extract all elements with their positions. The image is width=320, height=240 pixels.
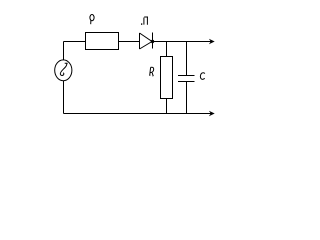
wire box to diode: [119, 41, 140, 43]
label C (capacitor designator): [200, 73, 204, 80]
capacitor C top plate: [178, 75, 195, 77]
wire R branch top: [166, 42, 168, 57]
resistor box (series, value rho): [86, 33, 119, 50]
node junction dot at diode cathode: [151, 40, 154, 43]
wire bottom rail: [64, 113, 212, 115]
diode VD triangle: [140, 33, 153, 49]
wire top-left horizontal: [64, 41, 86, 43]
wire C branch top: [186, 42, 188, 76]
label rho (series resistor value): [90, 15, 94, 25]
wire left vertical upper: [63, 42, 65, 61]
label L/D (diode designator): [141, 17, 148, 25]
resistor R vertical box: [161, 57, 173, 99]
output arrow bottom: [209, 111, 215, 116]
capacitor C bottom plate: [178, 81, 195, 83]
AC source circle: [55, 60, 72, 81]
wire left vertical lower: [63, 81, 65, 114]
wire C branch bottom: [186, 82, 188, 114]
wire top rail right: [153, 41, 212, 43]
AC source sine symbol: [60, 63, 67, 75]
wire R branch bottom: [166, 99, 168, 114]
label R (load resistor designator): [149, 67, 154, 75]
output arrow top: [209, 39, 215, 44]
diode cathode bar: [152, 33, 154, 49]
